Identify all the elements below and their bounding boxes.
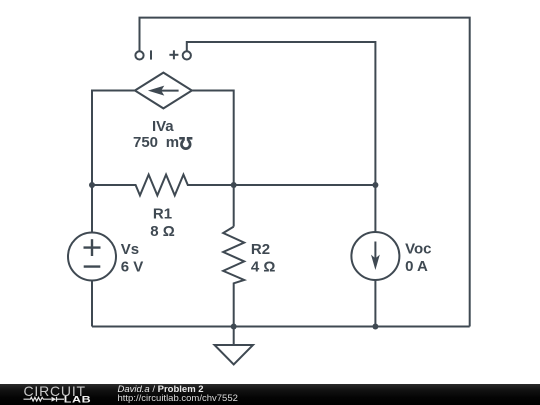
Voc arrow xyxy=(371,242,380,271)
node C dot right xyxy=(372,182,378,188)
wire top loop from minus terminal to right rail xyxy=(140,18,470,327)
wire bottom rail xyxy=(92,326,470,328)
svg-text:Vs: Vs xyxy=(121,241,139,258)
Vs minus sign xyxy=(84,265,101,267)
svg-text:m: m xyxy=(166,134,179,151)
svg-text:R1: R1 xyxy=(153,206,172,223)
svg-text:IVa: IVa xyxy=(152,118,174,135)
svg-text:Voc: Voc xyxy=(405,241,431,258)
svg-text:6 V: 6 V xyxy=(121,259,144,276)
wire diamond right down to node B xyxy=(192,91,234,227)
arrow inside IVa xyxy=(148,86,179,96)
footer title line xyxy=(118,384,204,395)
terminal plus label xyxy=(169,50,178,59)
wire Vs bottom to rail xyxy=(91,281,93,327)
resistor R1 xyxy=(92,175,375,196)
wire from plus terminal to Voc branch xyxy=(187,42,376,232)
terminal minus xyxy=(135,51,143,59)
voltage source Vs xyxy=(68,233,116,281)
wire Voc bottom to rail xyxy=(374,280,376,327)
ground xyxy=(215,327,254,365)
svg-text:750: 750 xyxy=(133,134,158,151)
current source Voc xyxy=(351,232,399,280)
value 750 mMho xyxy=(133,134,192,151)
node B dot middle xyxy=(231,182,237,188)
dependent current source IVa diamond body xyxy=(135,73,192,109)
node A dot left xyxy=(89,182,95,188)
node D dot bottom middle xyxy=(231,324,237,330)
Vs plus sign xyxy=(84,239,101,256)
footer bar xyxy=(0,384,540,405)
svg-text:8 Ω: 8 Ω xyxy=(150,223,175,240)
terminal minus label xyxy=(150,50,152,59)
node E dot bottom right xyxy=(372,324,378,330)
svg-text:0 A: 0 A xyxy=(405,258,428,275)
wire diamond left to left rail xyxy=(92,91,135,233)
svg-text:R2: R2 xyxy=(251,241,270,258)
svg-text:4 Ω: 4 Ω xyxy=(251,258,276,275)
footer url line xyxy=(118,393,238,404)
svg-text:LAB: LAB xyxy=(64,395,91,405)
CircuitLab logo xyxy=(14,383,114,405)
resistor R2 xyxy=(223,227,244,327)
terminal plus xyxy=(183,51,191,59)
